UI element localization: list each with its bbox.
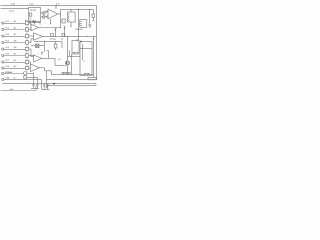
wire right border: [96, 5, 98, 79]
wire riser: [35, 86, 37, 91]
crystal Y1: [36, 44, 40, 48]
resistor R11 hanging: [55, 41, 57, 44]
box top-right G1: [80, 20, 87, 28]
wire bus mid: [43, 35, 97, 37]
svg-text:22k: 22k: [53, 39, 56, 41]
wire top border: [1, 4, 97, 6]
capacitor C1: [32, 73, 34, 85]
box E1 small: [62, 19, 65, 23]
connector J1 pin7: [2, 61, 4, 63]
svg-text:IN 2: IN 2: [6, 28, 9, 30]
resistor R8: [25, 66, 28, 69]
svg-text:2-9: 2-9: [56, 3, 60, 5]
summing wire D: [30, 62, 32, 66]
op-amp C: [34, 55, 42, 62]
capacitor C2: [36, 77, 38, 84]
wire drop x46.6: [46, 71, 48, 85]
power tap above U1: [55, 6, 57, 9]
pot P3: [24, 72, 27, 75]
feedback wire C: [48, 51, 50, 59]
connector J1 pin5: [2, 48, 4, 50]
ground GND1: [88, 24, 92, 26]
power arrow PA3: [41, 53, 43, 55]
wire lower rail C: [3, 83, 97, 85]
pot P4: [24, 76, 27, 79]
dashed strip: [76, 28, 83, 30]
svg-text:4k7: 4k7: [14, 54, 17, 56]
wire below H1: [71, 54, 73, 75]
resistor R12 on bus: [51, 33, 54, 36]
wire to ground cap: [88, 9, 90, 25]
svg-text:IN 6: IN 6: [6, 54, 9, 56]
svg-text:0v: 0v: [14, 78, 16, 80]
svg-text:4k7: 4k7: [14, 21, 17, 23]
svg-text:4k7: 4k7: [14, 34, 17, 36]
svg-text:4k7: 4k7: [14, 28, 17, 30]
box M1 bottom-right: [88, 77, 97, 80]
wire upper mid: [34, 40, 62, 42]
svg-text:ref.: ref.: [61, 38, 64, 40]
box F1: [68, 12, 76, 22]
diode D1: [29, 21, 41, 23]
wire U1 pin right 2: [41, 16, 43, 18]
label box on rail: [62, 72, 70, 74]
svg-text:10k: 10k: [14, 47, 17, 49]
wire right of K1: [92, 36, 94, 77]
wire drop to opamp C: [44, 41, 46, 52]
svg-text:4k7: 4k7: [14, 60, 17, 62]
connector J1 pin4: [2, 41, 4, 43]
wire into opamp A top: [39, 22, 41, 25]
connector J1 pin1: [2, 22, 4, 24]
wire U1 pin right 1: [41, 12, 43, 14]
power arrow PA2: [64, 28, 66, 36]
resistor R5: [25, 47, 28, 50]
svg-text:o1: o1: [76, 39, 78, 41]
ground bus mid: [42, 88, 50, 90]
svg-text:10k: 10k: [14, 41, 17, 43]
arrow marker on rail: [53, 83, 57, 85]
svg-text:+: +: [38, 53, 39, 55]
wire lower rail B: [47, 79, 97, 81]
svg-text:IN 8: IN 8: [6, 66, 9, 68]
rail join right: [95, 84, 97, 86]
svg-text:IN 4: IN 4: [6, 41, 9, 43]
wire lower rail A: [52, 74, 94, 76]
wire top feed: [1, 8, 29, 10]
svg-text:IN 7: IN 7: [6, 60, 9, 62]
svg-text:c: c: [29, 81, 30, 83]
transistor Q1: [67, 36, 69, 61]
connector J1 pin3: [2, 35, 4, 37]
resistor R3: [25, 34, 28, 37]
svg-text:1-14: 1-14: [29, 3, 34, 5]
IC U1: [29, 8, 41, 23]
connector J1 pin10: [2, 78, 4, 80]
svg-text:IN 5: IN 5: [6, 47, 9, 49]
wire U1 bottom stub: [34, 22, 36, 25]
svg-text:1k5: 1k5: [50, 38, 53, 40]
ground bus left: [31, 87, 39, 89]
cap pair into K1: [68, 51, 70, 57]
op-amp B: [34, 33, 43, 40]
resistor R2: [25, 28, 28, 31]
op-amp A: [31, 24, 39, 31]
summing wire A: [30, 23, 32, 30]
summing wire C: [30, 49, 32, 57]
trimmer P1: [43, 12, 46, 15]
summing wire B: [30, 39, 32, 43]
wire bottom rail: [1, 90, 37, 92]
ground stub: [46, 86, 48, 88]
connector J1 pin2: [2, 28, 4, 30]
svg-text:IN 3: IN 3: [6, 34, 9, 36]
svg-text:GND: GND: [6, 78, 11, 80]
resistor R4: [25, 41, 28, 44]
op-amp D: [31, 64, 40, 72]
box H1 mid-right: [72, 41, 79, 55]
svg-text:IN 1: IN 1: [6, 21, 9, 23]
op-amp U2 big: [48, 9, 58, 19]
feedback stub under U1: [50, 19, 52, 24]
capacitor C4: [47, 84, 49, 85]
power arrow PA1: [55, 30, 57, 36]
capacitor C3: [43, 84, 45, 85]
wire U1 out: [58, 13, 61, 15]
wire top bus y9: [61, 8, 94, 10]
box K1 big right: [80, 42, 92, 76]
resistor R7: [25, 60, 28, 63]
svg-text:b2: b2: [59, 59, 61, 61]
junction: [60, 14, 61, 15]
connector J1 pin9: [2, 72, 4, 74]
resistor R6: [25, 54, 28, 57]
svg-text:4k7: 4k7: [14, 66, 17, 68]
wire vertical x78.8 upper: [77, 9, 79, 40]
wire drop right of row10: [41, 80, 43, 90]
wire vertical x60.5: [60, 9, 62, 27]
junction A out: [60, 27, 61, 28]
svg-text:+: +: [45, 23, 47, 25]
svg-text:8T41P: 8T41P: [30, 10, 37, 12]
svg-text:COM-A: COM-A: [5, 71, 12, 74]
junction dots on bus: [55, 36, 88, 37]
svg-text:sense: sense: [9, 10, 15, 12]
resistor R1: [25, 21, 28, 24]
resistor lead stubs: [26, 20, 28, 21]
zener Z1 drop: [92, 9, 94, 14]
connector J1 pin6: [2, 54, 4, 56]
connector J1 pin8: [2, 67, 4, 69]
trimmer P2: [43, 16, 46, 19]
wire drop x62: [61, 41, 63, 48]
svg-text:q.: q.: [83, 61, 85, 63]
resistor R13 on bus: [62, 33, 65, 36]
wire lower rail D: [47, 84, 96, 86]
svg-text:4-16: 4-16: [11, 3, 16, 5]
